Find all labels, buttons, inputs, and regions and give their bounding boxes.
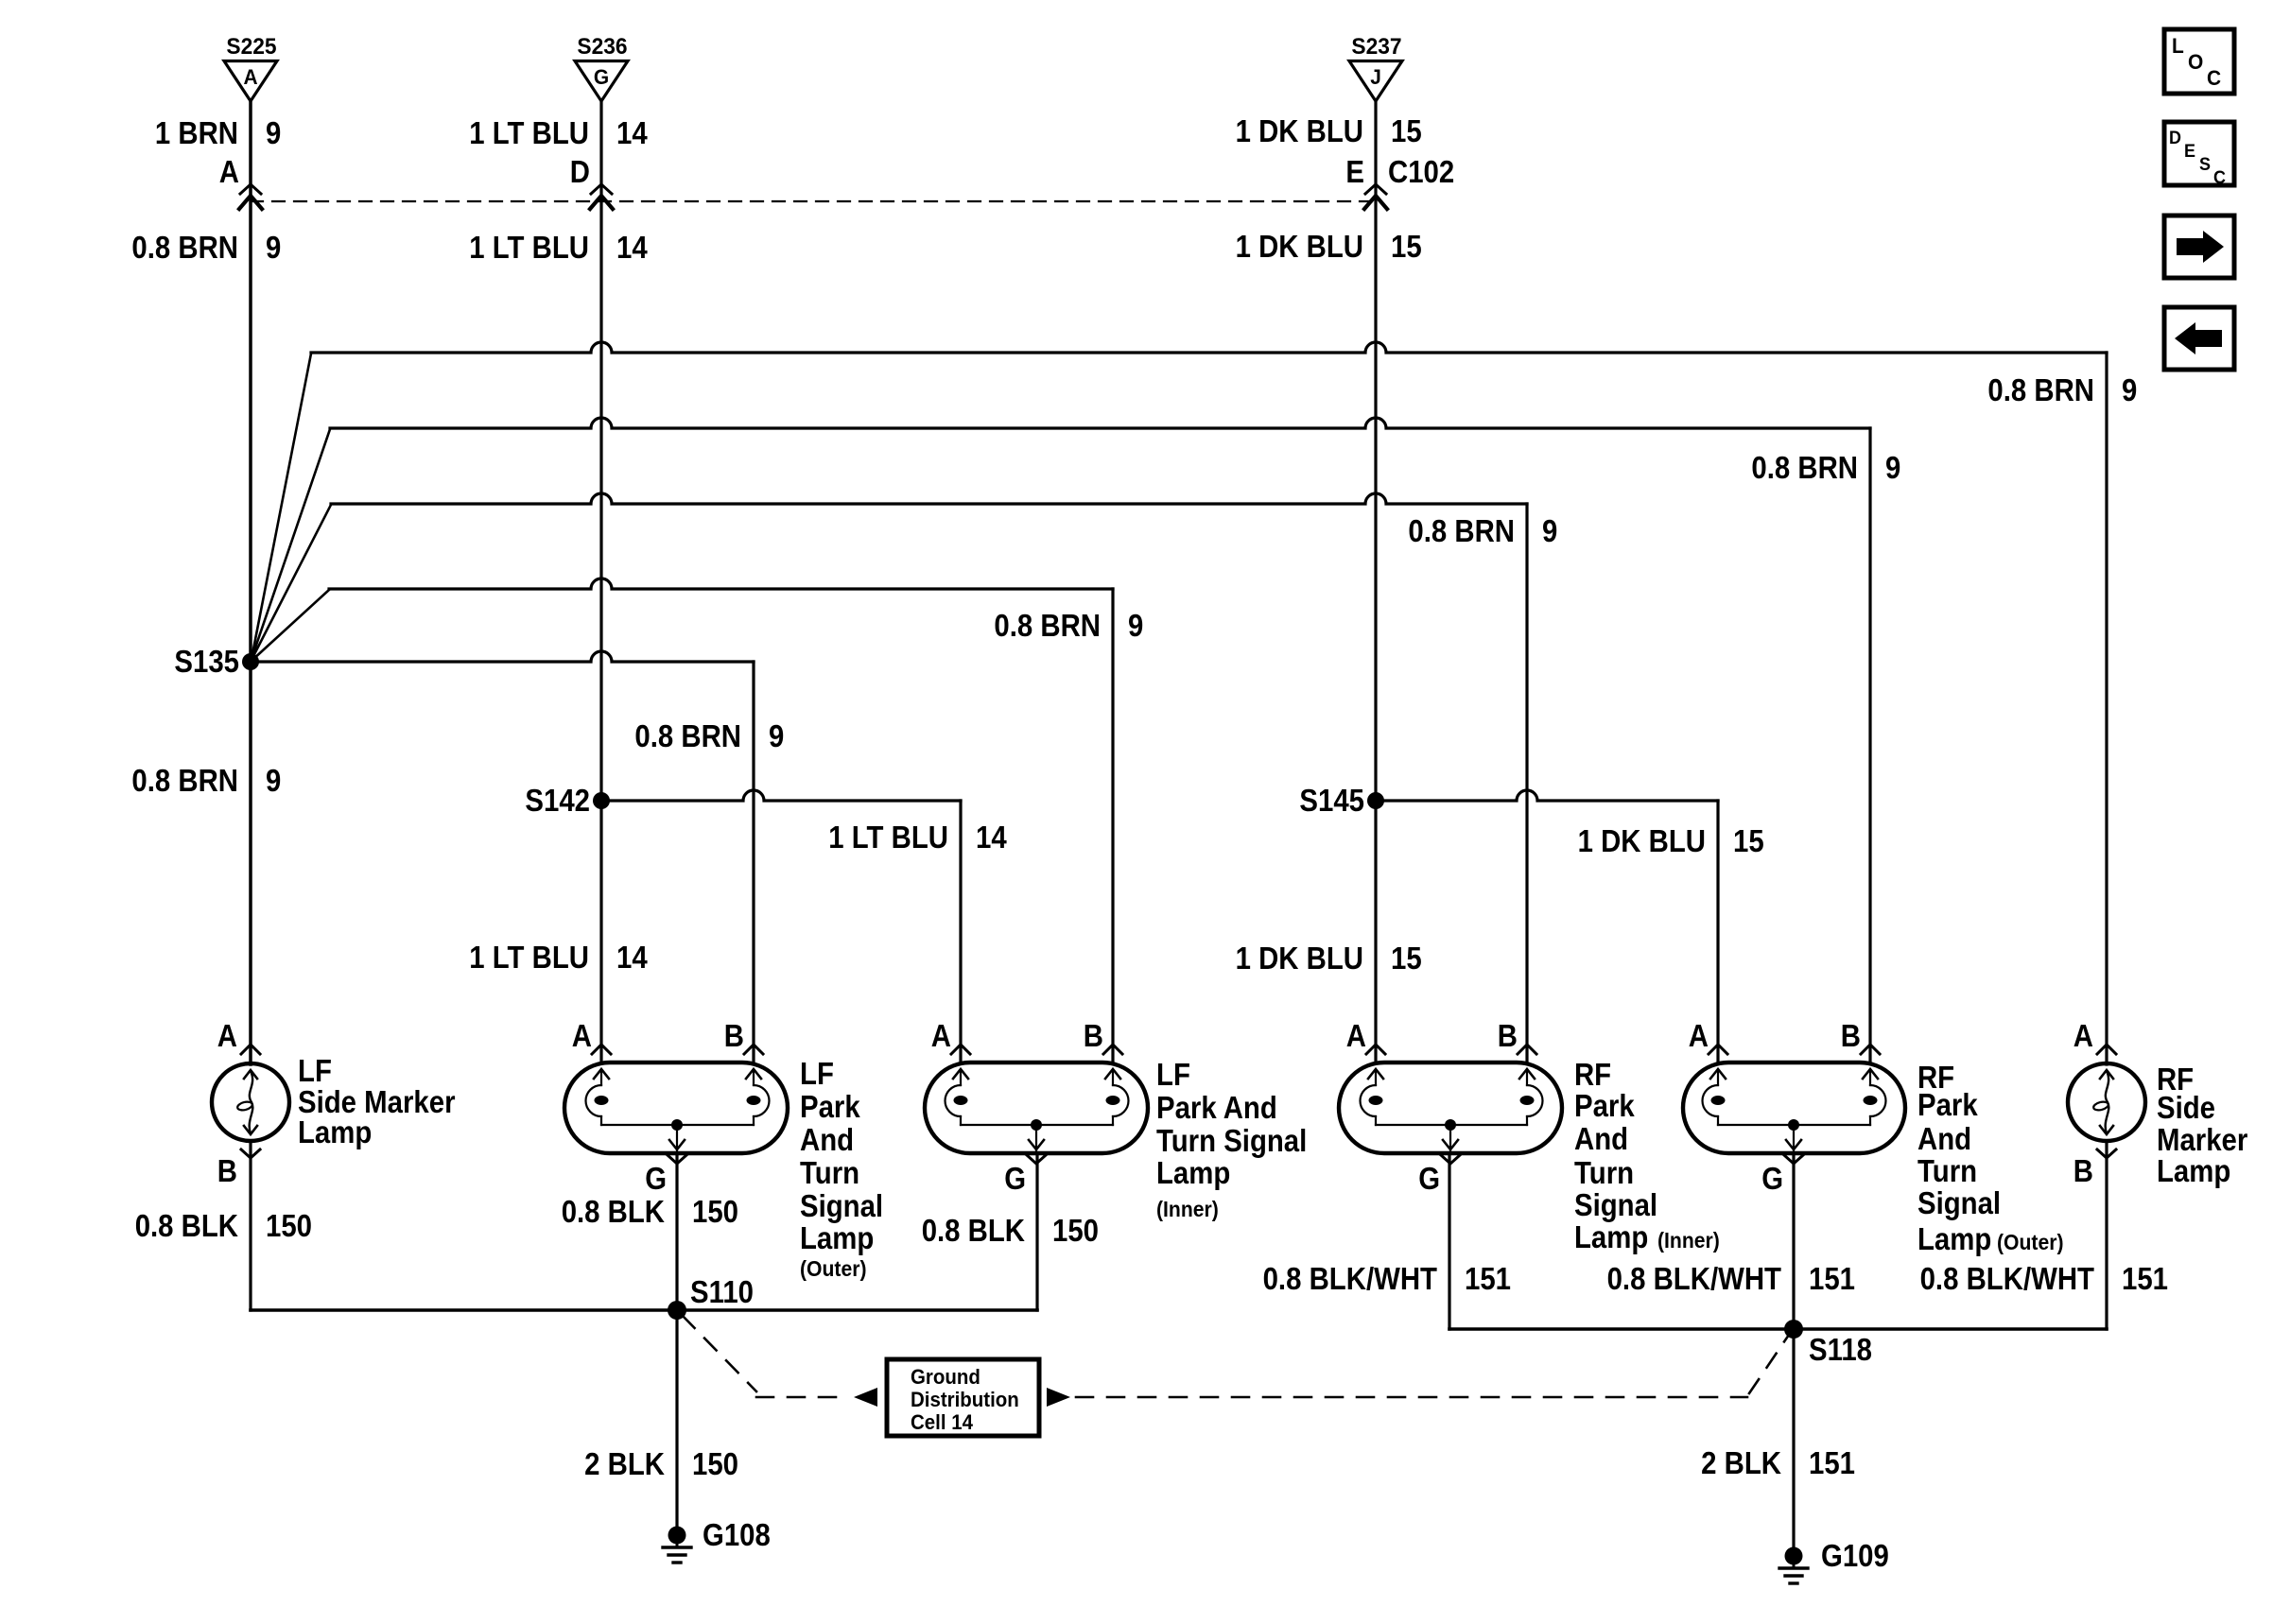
svg-text:L: L — [2172, 34, 2184, 58]
svg-text:S142: S142 — [525, 783, 590, 818]
svg-text:9: 9 — [2122, 372, 2137, 407]
splice S236 — [575, 34, 628, 101]
svg-text:B: B — [1841, 1018, 1861, 1053]
wire 0.8 BLK/WHT from RF side marker B — [2105, 1141, 2108, 1329]
svg-text:Signal: Signal — [1574, 1187, 1657, 1222]
label RF Side Marker Lamp name — [2157, 1062, 2247, 1188]
value label 2 BLK | 150 — [584, 1446, 738, 1481]
svg-text:G: G — [645, 1161, 667, 1196]
wire 1 DK BLU vertical to RF outer A — [1716, 801, 1719, 1063]
svg-text:E: E — [2184, 142, 2195, 162]
svg-text:9: 9 — [1128, 608, 1143, 643]
svg-text:G: G — [1761, 1161, 1783, 1196]
svg-text:150: 150 — [692, 1446, 738, 1481]
value label 1 LT BLU | 14 — [469, 115, 648, 150]
wire S135 fan diagonal 1 — [252, 354, 311, 659]
svg-text:C: C — [2213, 168, 2226, 188]
connector C102 pin A — [219, 154, 262, 209]
svg-text:0.8 BRN: 0.8 BRN — [994, 608, 1101, 643]
value label 0.8 BRN | 9 — [131, 763, 281, 798]
svg-text:Turn: Turn — [800, 1155, 859, 1190]
wire 0.8 BRN branch 3 horizontal — [331, 493, 1527, 504]
svg-text:A: A — [931, 1018, 951, 1053]
svg-text:G: G — [594, 65, 609, 89]
svg-text:Lamp: Lamp — [2157, 1153, 2230, 1188]
svg-text:0.8 BRN: 0.8 BRN — [131, 763, 238, 798]
lamp RF Side Marker Lamp — [2068, 1018, 2145, 1188]
wire feed A from S225 — [249, 101, 252, 1064]
junction S142 — [525, 783, 610, 818]
wire ground bus left — [251, 1308, 1037, 1312]
value label 1 LT BLU | 14 — [828, 820, 1007, 855]
svg-text:15: 15 — [1391, 941, 1422, 976]
icon DESC box — [2164, 122, 2234, 188]
svg-text:1 LT BLU: 1 LT BLU — [469, 115, 589, 150]
svg-text:Park: Park — [1917, 1087, 1978, 1122]
lamp RF Park And Turn Signal Lamp (Outer) — [1683, 1018, 1905, 1196]
svg-text:Cell 14: Cell 14 — [911, 1410, 974, 1434]
ground G109 — [1779, 1538, 1889, 1583]
lamp LF Park And Turn Signal Lamp (Inner) — [925, 1018, 1148, 1196]
svg-text:9: 9 — [266, 763, 281, 798]
svg-text:0.8 BLK/WHT: 0.8 BLK/WHT — [1920, 1261, 2094, 1296]
svg-text:Turn: Turn — [1574, 1155, 1634, 1190]
wire S135 fan diagonal 2 — [252, 429, 330, 659]
svg-text:B: B — [2073, 1153, 2093, 1188]
svg-text:0.8 BLK: 0.8 BLK — [562, 1194, 665, 1229]
svg-text:S145: S145 — [1299, 783, 1364, 818]
svg-text:150: 150 — [1052, 1213, 1099, 1248]
svg-text:1 LT BLU: 1 LT BLU — [469, 940, 589, 975]
splice S225 — [224, 34, 277, 101]
value label 0.8 BLK/WHT | 151 — [1607, 1261, 1855, 1296]
value label 0.8 BRN | 9 — [634, 718, 784, 753]
value label 1 DK BLU | 15 — [1236, 229, 1422, 264]
svg-text:(Inner): (Inner) — [1156, 1197, 1219, 1221]
svg-text:Lamp: Lamp — [800, 1220, 874, 1255]
svg-text:S225: S225 — [226, 34, 276, 60]
value label 2 BLK | 151 — [1701, 1445, 1855, 1480]
svg-text:O: O — [2188, 50, 2203, 74]
svg-text:151: 151 — [1809, 1445, 1855, 1480]
svg-text:Turn: Turn — [1917, 1153, 1977, 1188]
value label 1 DK BLU | 15 — [1236, 113, 1422, 148]
wire 2 BLK to G109 — [1792, 1329, 1795, 1547]
svg-text:LF: LF — [298, 1053, 332, 1088]
svg-text:9: 9 — [1542, 513, 1557, 548]
wire 0.8 BRN branch 5 vertical to LF outer B — [752, 662, 755, 1063]
svg-text:And: And — [1917, 1121, 1971, 1156]
wire feed E from S237 — [1374, 101, 1377, 1063]
svg-text:1 BRN: 1 BRN — [155, 115, 238, 150]
wire S135 fan diagonal 4 — [252, 590, 329, 661]
svg-text:A: A — [1689, 1018, 1709, 1053]
svg-text:S: S — [2199, 155, 2211, 175]
junction S110 — [668, 1274, 754, 1320]
svg-text:Lamp: Lamp — [1156, 1155, 1230, 1190]
wire 0.8 BRN branch 1 horizontal — [311, 342, 2107, 353]
label LF Side Marker Lamp name — [298, 1053, 456, 1149]
svg-text:0.8 BRN: 0.8 BRN — [131, 230, 238, 265]
wire ground bus right — [1449, 1327, 2107, 1331]
svg-text:(Outer): (Outer) — [1997, 1230, 2064, 1254]
svg-text:0.8 BLK: 0.8 BLK — [135, 1208, 238, 1243]
svg-text:B: B — [1084, 1018, 1103, 1053]
ground G108 — [663, 1517, 771, 1563]
ground distribution cell box — [887, 1359, 1039, 1436]
value label 0.8 BRN | 9 — [1751, 450, 1900, 485]
svg-text:9: 9 — [769, 718, 784, 753]
svg-text:S118: S118 — [1809, 1332, 1872, 1367]
svg-text:Lamp: Lamp — [1917, 1221, 1991, 1256]
svg-text:0.8 BLK: 0.8 BLK — [922, 1213, 1025, 1248]
svg-text:C102: C102 — [1388, 154, 1454, 189]
wire 0.8 BRN branch 3 vertical to RF inner B — [1525, 504, 1528, 1063]
wire 0.8 BRN branch 4 vertical to LF inner B — [1111, 589, 1114, 1063]
svg-text:15: 15 — [1391, 113, 1422, 148]
svg-text:B: B — [1498, 1018, 1518, 1053]
wire dashed link S110 to cell reference — [683, 1316, 849, 1397]
wire 0.8 BRN branch 4 horizontal — [329, 579, 1113, 589]
svg-text:151: 151 — [1809, 1261, 1855, 1296]
svg-text:LF: LF — [800, 1056, 834, 1091]
lamp LF Park And Turn Signal Lamp (Outer) — [564, 1018, 788, 1196]
svg-text:15: 15 — [1391, 229, 1422, 264]
value label 0.8 BLK | 150 — [922, 1213, 1099, 1248]
wire 0.8 BLK/WHT from RF inner G — [1448, 1153, 1450, 1329]
svg-text:2 BLK: 2 BLK — [1701, 1445, 1781, 1480]
value label 0.8 BLK/WHT | 151 — [1920, 1261, 2168, 1296]
svg-text:(Inner): (Inner) — [1657, 1228, 1720, 1253]
wire 0.8 BRN branch 2 vertical to RF outer B — [1868, 428, 1871, 1063]
svg-text:1 DK BLU: 1 DK BLU — [1236, 941, 1363, 976]
svg-text:RF: RF — [1574, 1057, 1611, 1092]
value label 1 LT BLU | 14 — [469, 940, 648, 975]
svg-text:A: A — [572, 1018, 592, 1053]
svg-text:(Outer): (Outer) — [800, 1256, 867, 1281]
svg-text:14: 14 — [616, 115, 648, 150]
svg-text:0.8 BLK/WHT: 0.8 BLK/WHT — [1263, 1261, 1437, 1296]
svg-text:15: 15 — [1733, 823, 1764, 858]
svg-text:Marker: Marker — [2157, 1122, 2247, 1157]
wire 0.8 BLK from LF side marker B — [249, 1141, 252, 1310]
arrow into ground distribution box (left) — [854, 1388, 877, 1407]
wire 0.8 BLK from LF inner G — [1035, 1153, 1038, 1310]
svg-text:1 LT BLU: 1 LT BLU — [469, 230, 589, 265]
svg-text:Park And: Park And — [1156, 1090, 1277, 1125]
lamp RF Park And Turn Signal Lamp (Inner) — [1339, 1018, 1562, 1196]
svg-text:LF: LF — [1156, 1057, 1190, 1092]
svg-text:0.8 BRN: 0.8 BRN — [634, 718, 741, 753]
svg-text:S135: S135 — [174, 644, 239, 679]
value label 0.8 BLK | 150 — [135, 1208, 312, 1243]
wire 0.8 BRN branch 5 horizontal from S135 — [251, 651, 754, 662]
svg-text:0.8 BRN: 0.8 BRN — [1751, 450, 1858, 485]
wire 1 DK BLU from S145 — [1376, 790, 1718, 801]
svg-text:A: A — [219, 154, 239, 189]
value label 0.8 BLK | 150 — [562, 1194, 738, 1229]
wire 0.8 BLK from LF outer G — [675, 1153, 678, 1310]
label LF Park And Turn Signal Lamp (Outer) name — [800, 1056, 883, 1281]
value label 1 LT BLU | 14 — [469, 230, 648, 265]
lamp LF Side Marker Lamp — [212, 1018, 289, 1188]
value label 0.8 BRN | 9 — [1987, 372, 2137, 407]
svg-text:S237: S237 — [1351, 34, 1401, 60]
wire 0.8 BRN branch 2 horizontal — [330, 418, 1870, 428]
splice S237 — [1349, 34, 1402, 101]
junction S118 — [1784, 1320, 1872, 1367]
svg-text:Turn Signal: Turn Signal — [1156, 1123, 1307, 1158]
svg-text:14: 14 — [616, 230, 648, 265]
svg-text:151: 151 — [1465, 1261, 1511, 1296]
value label 0.8 BLK/WHT | 151 — [1263, 1261, 1511, 1296]
connector C102 pin D — [570, 154, 613, 209]
svg-text:14: 14 — [616, 940, 648, 975]
icon back arrow box — [2164, 307, 2234, 370]
svg-text:A: A — [243, 65, 257, 89]
value label 0.8 BRN | 9 — [1408, 513, 1557, 548]
svg-text:G: G — [1004, 1161, 1026, 1196]
svg-text:S236: S236 — [577, 34, 627, 60]
svg-text:D: D — [570, 154, 590, 189]
junction S145 — [1299, 783, 1384, 818]
svg-text:D: D — [2169, 129, 2181, 148]
icon LOC box — [2164, 29, 2234, 94]
svg-text:1 DK BLU: 1 DK BLU — [1578, 823, 1706, 858]
label RF Park And Turn Signal Lamp (Outer) name — [1917, 1060, 2001, 1256]
label RF Park And Turn Signal Lamp (Inner) name — [1574, 1057, 1657, 1254]
svg-text:G108: G108 — [703, 1517, 771, 1552]
svg-text:1 DK BLU: 1 DK BLU — [1236, 113, 1363, 148]
svg-text:9: 9 — [1885, 450, 1900, 485]
svg-text:1 LT BLU: 1 LT BLU — [828, 820, 948, 855]
svg-text:9: 9 — [266, 230, 281, 265]
value label 0.8 BRN | 9 — [994, 608, 1143, 643]
svg-text:9: 9 — [266, 115, 281, 150]
svg-text:Signal: Signal — [1917, 1185, 2001, 1220]
svg-text:E: E — [1345, 154, 1364, 189]
svg-text:G109: G109 — [1821, 1538, 1889, 1573]
svg-text:2 BLK: 2 BLK — [584, 1446, 665, 1481]
wire 0.8 BRN branch 1 vertical to RF side marker A — [2105, 353, 2108, 1064]
wire 1 LT BLU vertical to LF inner A — [959, 801, 962, 1063]
svg-text:C: C — [2207, 66, 2221, 90]
svg-text:B: B — [724, 1018, 744, 1053]
svg-text:Park: Park — [1574, 1088, 1635, 1123]
svg-text:And: And — [800, 1122, 854, 1157]
junction S135 — [174, 644, 259, 679]
svg-text:150: 150 — [266, 1208, 312, 1243]
svg-text:150: 150 — [692, 1194, 738, 1229]
value label 1 DK BLU | 15 — [1236, 941, 1422, 976]
wire 1 LT BLU from S142 — [601, 790, 961, 801]
svg-text:Distribution: Distribution — [911, 1388, 1019, 1411]
connector C102 pin E — [1345, 154, 1454, 209]
wire S135 fan diagonal 3 — [252, 505, 331, 660]
svg-text:A: A — [2073, 1018, 2093, 1053]
svg-text:0.8 BLK/WHT: 0.8 BLK/WHT — [1607, 1261, 1781, 1296]
svg-text:G: G — [1418, 1161, 1440, 1196]
wire feed D from S236 — [599, 101, 602, 1063]
value label 1 BRN | 9 — [155, 115, 281, 150]
arrow out of ground distribution box (right) — [1047, 1388, 1070, 1407]
svg-text:A: A — [1346, 1018, 1366, 1053]
svg-text:Lamp: Lamp — [298, 1114, 372, 1149]
wire dashed link cell reference to S118 — [1076, 1335, 1789, 1397]
icon forward arrow box — [2164, 216, 2234, 278]
svg-text:151: 151 — [2122, 1261, 2168, 1296]
svg-text:Ground: Ground — [911, 1365, 980, 1389]
wire 0.8 BLK/WHT from RF outer G — [1792, 1153, 1795, 1329]
svg-text:1 DK BLU: 1 DK BLU — [1236, 229, 1363, 264]
svg-text:A: A — [217, 1018, 237, 1053]
svg-text:B: B — [217, 1153, 237, 1188]
svg-text:Lamp: Lamp — [1574, 1219, 1648, 1254]
value label 1 DK BLU | 15 — [1578, 823, 1764, 858]
svg-text:14: 14 — [976, 820, 1007, 855]
svg-text:0.8 BRN: 0.8 BRN — [1987, 372, 2094, 407]
connector C102 dashed line — [251, 200, 1376, 202]
svg-text:Park: Park — [800, 1089, 860, 1124]
wire 2 BLK to G108 — [675, 1310, 678, 1527]
value label 0.8 BRN | 9 — [131, 230, 281, 265]
svg-text:0.8 BRN: 0.8 BRN — [1408, 513, 1515, 548]
svg-text:And: And — [1574, 1121, 1628, 1156]
svg-text:J: J — [1370, 65, 1381, 89]
label LF Park And Turn Signal Lamp (Inner) name — [1156, 1057, 1307, 1221]
svg-text:Side: Side — [2157, 1090, 2215, 1125]
svg-text:Signal: Signal — [800, 1188, 883, 1223]
svg-text:S110: S110 — [690, 1274, 754, 1309]
